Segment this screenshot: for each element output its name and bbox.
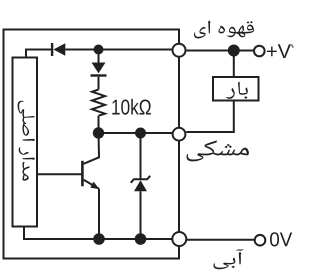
terminal black مشکی — [173, 128, 186, 141]
wire from main block top to diode D1 — [26, 50, 51, 58]
stray tick after +V — [291, 44, 293, 47]
main circuit block مدار اصلی — [13, 58, 38, 227]
terminal blue آبی — [172, 232, 186, 246]
diode D1 triangle — [53, 43, 65, 55]
node load-top junction dot — [228, 45, 240, 57]
emitter arrowhead — [90, 182, 99, 190]
wire node B down to collector — [84, 133, 99, 164]
label 10kOhm — [112, 99, 151, 115]
wire node A down to diode D2 — [98, 50, 100, 63]
wire D2 to resistor R1 — [98, 77, 100, 90]
zener Z1 cathode bar with hooks — [131, 176, 150, 183]
wire node C down to zener Z1 — [140, 133, 142, 179]
0V terminal circle — [255, 235, 266, 246]
diode D2 cathode bar — [91, 74, 107, 76]
terminal brown قهوه ای — [173, 44, 186, 57]
node C junction dot — [135, 128, 146, 139]
label مدار اصلی (rotated) — [18, 101, 35, 181]
wire load box to black terminal — [186, 101, 234, 133]
transistor Q1 bar — [81, 161, 84, 186]
zener to 0V rail wire — [140, 191, 142, 234]
label بار — [226, 81, 248, 98]
base wire from main block — [38, 173, 82, 175]
emitter diagonal — [84, 180, 99, 189]
label +V — [267, 44, 291, 58]
label آبی — [214, 249, 244, 269]
load box بار — [213, 77, 259, 101]
node B junction dot — [93, 127, 104, 138]
wire resistor to node B — [98, 116, 100, 128]
emitter wire down — [98, 189, 100, 234]
label قهوه ای — [194, 21, 254, 39]
sensor housing outline — [4, 30, 180, 259]
resistor R1 zigzag — [92, 90, 105, 116]
+V terminal circle — [254, 46, 265, 57]
wire D1 to brown terminal — [65, 49, 172, 51]
node D junction dot — [93, 233, 105, 245]
wire blue terminal to 0V — [187, 239, 255, 241]
0V rail from main block — [24, 227, 172, 240]
label 0V — [270, 232, 292, 246]
wire brown terminal to +V — [186, 50, 254, 52]
zener Z1 triangle (anode below) — [134, 180, 147, 191]
wire +V node down to load box — [233, 51, 235, 78]
diode D1 cathode bar — [51, 43, 53, 56]
output wire node B to black terminal — [99, 132, 173, 134]
node E junction dot — [135, 233, 147, 245]
label مشکی — [187, 140, 249, 161]
node A junction dot — [94, 45, 104, 55]
diode D2 triangle (cathode down) — [92, 63, 106, 74]
